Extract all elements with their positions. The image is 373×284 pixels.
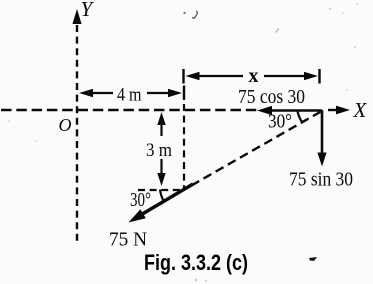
75 cos 30 component arrow (solid, pointing left along X axis) [270,109,322,112]
Y axis dashed line [76,25,78,243]
svg-text:Fig. 3.3.2 (c): Fig. 3.3.2 (c) [144,250,248,275]
svg-text:X: X [353,98,368,122]
vertical dashed projection line at x=184 [183,104,185,188]
svg-text:75 N: 75 N [109,229,147,251]
faint diagonal tick [276,29,280,33]
75 N force arrow (solid) [139,184,193,216]
svg-text:30°: 30° [268,111,292,133]
svg-text:30°: 30° [130,189,151,211]
lower 30 degree angle arc [160,190,164,202]
svg-text:75 sin 30: 75 sin 30 [289,169,353,191]
X axis dashed line [1,109,257,111]
4 m dimension line with left arrow [92,92,113,94]
faint dots below caption [195,279,197,281]
force line of action (dashed diagonal) [187,112,321,189]
svg-text:4 m: 4 m [117,85,142,106]
Y axis arrowhead [72,9,81,24]
75 sin 30 component arrow (solid, pointing down) [321,110,324,154]
3 m dimension down arrow [160,159,162,174]
svg-text:O: O [59,115,72,135]
upper 30 degree angle arc [298,112,303,123]
x dimension right tick [318,69,320,84]
svg-text:3 m: 3 m [146,140,172,161]
x dimension line with right arrow [264,75,305,77]
svg-text:x: x [249,65,259,87]
faint scan speckles [329,8,331,10]
x dimension line with left arrow [198,75,243,77]
X axis arrow at right [328,109,341,111]
4 m dimension line with right arrow [147,92,169,94]
3 m dimension up arrow [160,124,162,136]
short dashed horizontal at bottom of 3 m [138,189,184,191]
small ink squiggle top centre [193,11,198,18]
x dimension left tick [182,69,184,84]
svg-text:75 cos 30: 75 cos 30 [238,86,305,108]
stray ink mark right of caption [309,257,317,261]
4 m dimension right tick [183,86,185,101]
dot left of squiggle [183,12,185,14]
